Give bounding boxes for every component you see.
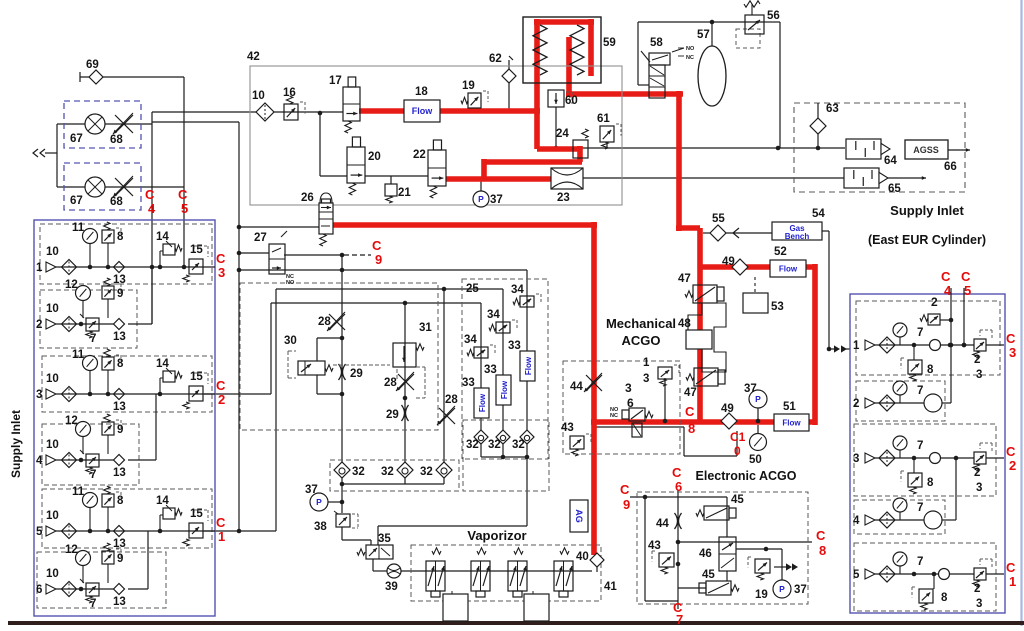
wire flowmeter supply to filter 10	[152, 111, 257, 113]
page edge line right	[1020, 0, 1022, 626]
svg-text:Bench: Bench	[785, 232, 810, 241]
wire venturi to muffler65 line y178	[583, 177, 844, 179]
svg-text:68: 68	[110, 134, 123, 146]
label C3 right	[1006, 331, 1016, 360]
svg-text:61: 61	[597, 113, 610, 125]
gauge 12 row6	[65, 544, 91, 583]
junction row2	[79, 322, 84, 327]
flow tube 33 branch1	[462, 377, 489, 418]
box 42 frame	[247, 51, 622, 205]
check 13 row4	[113, 455, 126, 480]
filter 10 row1	[46, 246, 77, 275]
svg-text:39: 39	[385, 581, 398, 593]
svg-text:18: 18	[415, 86, 428, 98]
svg-text:Flow: Flow	[500, 380, 509, 399]
check ball right row5	[939, 569, 950, 580]
blue dashed box flowmeter 2	[64, 163, 141, 210]
svg-text:10: 10	[46, 303, 59, 315]
svg-text:5: 5	[181, 201, 188, 216]
svg-text:10: 10	[46, 439, 59, 451]
dashed box 30-block	[240, 283, 438, 430]
flow box 51	[774, 401, 809, 431]
dashed box vaporizor	[411, 545, 601, 601]
muffler 64	[846, 139, 897, 167]
valve 20	[347, 137, 381, 195]
right dashed row5	[854, 543, 996, 611]
wire gauge37 vap stub	[328, 501, 342, 503]
vap valve 2	[471, 548, 490, 597]
svg-text:28: 28	[318, 316, 331, 328]
wire supply bus y270	[239, 269, 527, 271]
svg-text:8: 8	[927, 364, 934, 376]
valve 35	[357, 533, 393, 559]
svg-text:68: 68	[110, 196, 123, 208]
svg-text:9: 9	[117, 424, 123, 436]
ball check 39	[385, 564, 401, 593]
svg-text:C: C	[1006, 560, 1016, 575]
solenoid valve 58	[641, 37, 684, 98]
junction elec 3	[764, 547, 769, 552]
svg-text:32: 32	[352, 466, 365, 478]
dashed box 25	[462, 279, 548, 459]
regulator 38	[314, 511, 358, 533]
junction 31	[403, 396, 408, 401]
check 13 row1	[113, 262, 126, 287]
inlet 3 right triangle	[853, 453, 875, 465]
wire row5 main	[56, 530, 215, 532]
svg-text:11: 11	[72, 349, 85, 361]
junction right r5	[932, 572, 937, 577]
junction 14 row3	[158, 392, 163, 397]
svg-text:0: 0	[734, 444, 741, 458]
svg-text:47: 47	[684, 387, 697, 399]
svg-text:C: C	[216, 378, 226, 393]
wire bus289 drop x276	[204, 289, 276, 531]
svg-text:59: 59	[603, 37, 616, 49]
coil 59 left	[533, 25, 547, 75]
regulator 8 row5	[102, 486, 124, 531]
gauge P 37 box42	[473, 191, 503, 207]
vap canister 1	[443, 591, 468, 621]
svg-text:28: 28	[445, 394, 458, 406]
wire 32 lower bus	[342, 477, 444, 513]
wire elec C9 line	[630, 496, 727, 498]
inlet 3 triangle	[36, 389, 56, 401]
wire cylinder inlet arrows	[829, 345, 850, 352]
left dashed row3	[42, 356, 212, 412]
wire row6 main	[56, 588, 120, 590]
valve 30	[284, 335, 333, 378]
wire gasbench54 down to cylinder inlet	[822, 231, 829, 349]
mech regulator 43	[561, 422, 591, 456]
svg-text:15: 15	[190, 244, 203, 256]
mech label 3 6	[625, 381, 634, 410]
svg-text:2: 2	[974, 583, 980, 595]
wire long drop x239	[237, 268, 242, 534]
label NO NC 58	[678, 46, 695, 61]
dashed box 32b	[463, 420, 549, 491]
svg-text:32: 32	[466, 439, 479, 451]
flowmeter 67 box2	[70, 177, 105, 207]
wire right row3	[875, 457, 1004, 459]
right dashed row4	[854, 500, 945, 534]
svg-text:13: 13	[113, 274, 126, 286]
gauge 7 right row2	[893, 381, 923, 403]
inlet 2 triangle	[36, 319, 56, 331]
svg-text:34: 34	[464, 334, 477, 346]
svg-text:19: 19	[755, 589, 768, 601]
check 13 row2	[113, 319, 126, 344]
red pipe right riser x815	[812, 264, 818, 425]
svg-text:44: 44	[656, 518, 669, 530]
right dashed row2	[856, 381, 945, 421]
check 32 a2	[381, 462, 413, 478]
regulator 15 row5	[183, 508, 208, 546]
svg-text:46: 46	[699, 548, 712, 560]
wire 62 check drop	[509, 56, 513, 112]
valve 47 upper	[678, 273, 724, 303]
regulator 34 branch1	[464, 334, 495, 358]
wire filter10 to valve17	[273, 111, 343, 113]
label C4	[145, 187, 156, 216]
svg-text:Supply Inlet: Supply Inlet	[890, 203, 964, 218]
svg-text:23: 23	[557, 192, 570, 204]
junction right row1	[912, 343, 967, 348]
svg-text:10: 10	[46, 510, 59, 522]
svg-text:C: C	[620, 482, 630, 497]
valve 17	[329, 75, 360, 133]
wire elec valve45 top stub	[726, 497, 728, 537]
svg-text:14: 14	[156, 231, 169, 243]
svg-text:Electronic ACGO: Electronic ACGO	[696, 469, 797, 483]
svg-text:47: 47	[678, 273, 691, 285]
wire row1 main	[56, 266, 215, 268]
wire 56 outlet down to AGSS line	[764, 22, 780, 148]
svg-text:40: 40	[576, 551, 589, 563]
check 13 row3	[113, 389, 126, 414]
svg-text:8: 8	[941, 592, 948, 604]
label supply inlet left	[9, 410, 23, 478]
svg-text:3: 3	[643, 373, 649, 385]
svg-text:C1: C1	[730, 430, 746, 444]
vap canister 2	[524, 591, 549, 621]
svg-text:24: 24	[556, 128, 569, 140]
check 13 row6	[113, 584, 126, 609]
svg-text:60: 60	[565, 95, 578, 107]
svg-text:P: P	[755, 394, 761, 404]
svg-text:64: 64	[884, 155, 897, 167]
wire elec left loop	[645, 497, 678, 601]
heat exchanger 59 box	[523, 17, 616, 83]
wire mech comp stub	[664, 378, 666, 421]
svg-text:7: 7	[917, 327, 923, 339]
wire muffler65 outlet arrow	[888, 176, 926, 180]
svg-text:1: 1	[36, 262, 43, 274]
junction elec C9	[643, 495, 648, 500]
wire valve35 out to vaporizer rail	[373, 559, 592, 571]
regulator 34 branch3	[511, 284, 541, 307]
check ball right row4	[924, 511, 942, 529]
check 32 b3	[512, 430, 534, 451]
svg-text:C: C	[685, 404, 695, 419]
check 32 b2	[488, 430, 510, 451]
svg-text:1: 1	[218, 529, 225, 544]
svg-text:1: 1	[1009, 574, 1016, 589]
svg-text:14: 14	[156, 358, 169, 370]
dashed box 32a	[330, 460, 459, 491]
box 53	[743, 293, 784, 313]
mech reg 1-3	[643, 357, 679, 386]
svg-text:ACGO: ACGO	[622, 333, 661, 348]
vap valve 1	[426, 548, 445, 597]
svg-text:28: 28	[384, 377, 397, 389]
svg-text:49: 49	[722, 256, 735, 268]
svg-text:15: 15	[190, 508, 203, 520]
svg-text:53: 53	[771, 301, 784, 313]
junction 57	[710, 20, 715, 25]
svg-text:10: 10	[46, 568, 59, 580]
check 62	[489, 53, 516, 83]
mech lower comp	[632, 423, 642, 437]
filter 1 right	[879, 337, 895, 353]
svg-text:NC: NC	[610, 413, 618, 419]
check 63	[810, 103, 839, 148]
svg-text:7: 7	[917, 502, 923, 514]
check 40	[576, 551, 604, 567]
svg-text:58: 58	[650, 37, 663, 49]
gauge P 37 vap	[305, 484, 328, 511]
gauge 7 right row5	[893, 552, 923, 574]
svg-text:2: 2	[218, 392, 225, 407]
regulator 19 elec	[748, 557, 770, 601]
gauge 12 row2	[65, 279, 91, 318]
regulator 16	[283, 87, 305, 120]
AG box	[570, 500, 588, 532]
wire to valve 27	[237, 251, 269, 256]
svg-text:(East EUR Cylinder): (East EUR Cylinder)	[868, 233, 986, 247]
label C9 lower	[620, 482, 630, 512]
wire mech black under-line	[596, 427, 737, 456]
svg-text:AG: AG	[574, 509, 584, 523]
svg-text:17: 17	[329, 75, 342, 87]
check 32 a3	[420, 462, 452, 478]
junction row4	[79, 458, 84, 463]
svg-text:29: 29	[386, 409, 399, 421]
svg-text:5: 5	[853, 569, 860, 581]
svg-text:65: 65	[888, 183, 901, 195]
AGSS dashed box	[794, 103, 965, 192]
manifold 48 outline	[688, 303, 726, 372]
svg-text:54: 54	[812, 208, 825, 220]
junction row1	[88, 265, 111, 270]
check 49 upper	[722, 256, 748, 275]
svg-text:Flow: Flow	[478, 393, 487, 412]
svg-text:35: 35	[378, 533, 391, 545]
svg-text:50: 50	[749, 454, 762, 466]
svg-text:16: 16	[283, 87, 296, 99]
svg-text:8: 8	[117, 358, 124, 370]
wire box1 outlet	[64, 123, 152, 125]
wire 24 to AGSS line y148	[554, 146, 845, 151]
svg-text:12: 12	[65, 415, 78, 427]
wire to valve 26	[237, 225, 319, 230]
inlet 6 triangle	[36, 584, 56, 596]
flowmeter 67 box1	[70, 114, 105, 145]
wire 59 top node to 58 and 56	[638, 22, 764, 85]
wire 31 branch x405	[404, 303, 406, 463]
filter 3 right	[879, 450, 895, 466]
svg-text:Mechanical: Mechanical	[606, 316, 676, 331]
svg-text:30: 30	[284, 335, 297, 347]
regulator 9 row2	[102, 278, 123, 318]
label C7	[673, 600, 683, 627]
wire vertical supply to valves 26 27	[238, 122, 240, 270]
svg-text:33: 33	[484, 364, 497, 376]
label C4 right	[941, 269, 952, 298]
wire elec 46 to P37	[736, 549, 782, 580]
svg-text:7: 7	[917, 440, 923, 452]
wire 60 stub down	[555, 107, 557, 148]
title supply inlet east	[890, 203, 964, 218]
solenoid 45 bottom	[699, 569, 739, 595]
svg-text:37: 37	[305, 484, 318, 496]
svg-text:P: P	[779, 584, 785, 594]
wire right box C5 drop	[962, 288, 967, 347]
left dashed row4	[42, 424, 139, 485]
inlet 5 triangle	[36, 526, 56, 538]
wire row6 up-link	[128, 531, 148, 589]
junction mech 37	[756, 419, 761, 424]
venturi 29 second	[386, 405, 409, 421]
svg-text:7: 7	[917, 556, 923, 568]
svg-text:33: 33	[462, 377, 475, 389]
svg-text:37: 37	[794, 584, 807, 596]
svg-text:Flow: Flow	[782, 419, 801, 428]
filter 10 row4	[46, 439, 77, 468]
svg-text:4: 4	[148, 201, 156, 216]
wire right row4	[875, 519, 924, 521]
bottom page border line	[8, 621, 1024, 625]
svg-text:3: 3	[625, 381, 632, 395]
regulator 8 right row1	[901, 345, 934, 381]
red pipe main drop x700	[697, 228, 703, 423]
label NC NO 27	[286, 274, 295, 286]
gauge 12 row4	[65, 415, 91, 454]
svg-text:7: 7	[90, 333, 96, 345]
regulator 34 branch2	[487, 309, 517, 333]
wire right r2 connector	[942, 402, 951, 404]
svg-text:33: 33	[508, 340, 521, 352]
left dashed row1	[40, 224, 212, 284]
regulator 61	[597, 113, 621, 149]
valve 47 lower	[684, 368, 725, 399]
red pipe valve26 to vaporizer drop	[333, 222, 597, 555]
svg-text:3: 3	[36, 389, 42, 401]
check 32 a1	[334, 462, 365, 478]
label C1	[216, 515, 226, 544]
flow tube 33 branch3	[508, 340, 535, 381]
svg-text:1: 1	[853, 340, 860, 352]
outlet arrows left	[33, 149, 45, 157]
regulator 15 row3	[183, 371, 208, 409]
left dashed row2	[40, 290, 137, 348]
wire valve20 to valve22	[365, 175, 428, 177]
svg-text:32: 32	[512, 439, 525, 451]
gauge 11 row5	[72, 486, 98, 531]
junction right row5	[912, 572, 917, 577]
title electronic ACGO	[696, 469, 797, 483]
inlet 2 right triangle	[853, 398, 875, 410]
junction 32b	[501, 455, 530, 460]
dashed box mechanical ACGO	[563, 361, 680, 454]
wire row2 up-link	[128, 267, 152, 324]
regulator 21	[385, 184, 411, 203]
label C2 right	[1006, 444, 1016, 473]
wire 30 valve loop	[317, 338, 342, 394]
svg-text:7: 7	[917, 385, 923, 397]
wire 21 stub	[390, 176, 392, 184]
svg-text:42: 42	[247, 51, 260, 63]
dashed link 30-31	[333, 364, 390, 366]
svg-text:15: 15	[190, 371, 203, 383]
svg-text:32: 32	[420, 466, 433, 478]
filter 2 right	[879, 395, 895, 411]
svg-text:Vaporizor: Vaporizor	[467, 528, 526, 543]
filter 4 right	[879, 512, 895, 528]
svg-text:C: C	[941, 269, 951, 284]
svg-text:13: 13	[113, 538, 126, 550]
svg-text:43: 43	[648, 540, 661, 552]
wire check55 to gasbench	[703, 228, 772, 238]
wire valve17 branch down to valve20	[320, 113, 347, 176]
check ball right row3	[930, 453, 941, 464]
wire branch x481	[480, 303, 482, 431]
svg-text:27: 27	[254, 232, 267, 244]
wire elec valve45 bottom stubs	[678, 571, 727, 588]
wire C5 vertical node	[183, 77, 185, 267]
svg-text:41: 41	[604, 581, 617, 593]
title vaporizor	[467, 528, 526, 543]
svg-text:Flow: Flow	[779, 265, 798, 274]
svg-text:NO: NO	[686, 46, 695, 52]
svg-text:7: 7	[676, 612, 683, 626]
regulator 8 row1	[102, 222, 124, 267]
gas bench box 54	[772, 208, 825, 241]
wire right row2	[875, 402, 924, 404]
svg-text:2: 2	[931, 295, 938, 309]
wire row3 main	[56, 393, 215, 395]
svg-text:3: 3	[853, 453, 859, 465]
svg-text:56: 56	[767, 10, 780, 22]
inlet 1 right triangle	[853, 340, 875, 352]
svg-text:5: 5	[36, 526, 43, 538]
junction right row3	[912, 456, 917, 461]
wire gauge37 stub box42	[480, 179, 482, 191]
junction 14 row1	[158, 265, 163, 270]
wire right row1	[875, 344, 1004, 346]
svg-text:2: 2	[974, 354, 980, 366]
svg-text:9: 9	[623, 497, 630, 512]
label 41	[604, 581, 617, 593]
red pipe 59 top	[534, 19, 594, 25]
left dashed row6	[37, 552, 166, 608]
svg-text:26: 26	[301, 192, 314, 204]
gauge 11 row1	[72, 222, 98, 267]
red pipe vertical to heat exchanger 59	[534, 19, 540, 149]
svg-text:13: 13	[113, 401, 126, 413]
wire 38 to valve35	[342, 527, 371, 545]
wire 19 stub	[476, 108, 478, 112]
